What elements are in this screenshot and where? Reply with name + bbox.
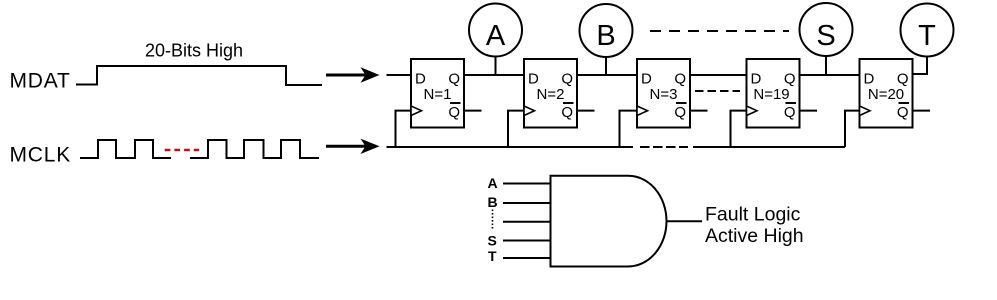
flip-flop U20 N=20 <box>860 59 913 128</box>
svg-text:Q: Q <box>784 71 796 88</box>
MCLK rail solid left segment <box>387 146 634 148</box>
wire Q19 to D20 <box>800 74 860 76</box>
svg-text:S: S <box>488 232 497 248</box>
AND gate input wire T <box>503 257 551 259</box>
AND gate input wire middle <box>503 221 551 223</box>
svg-text:Q: Q <box>897 71 909 88</box>
svg-text:B: B <box>596 20 615 52</box>
Q-bar stub FF3 <box>690 110 708 112</box>
dashed line node B to node S <box>650 30 789 32</box>
node A <box>469 4 522 76</box>
svg-text:D: D <box>528 71 539 88</box>
MDAT waveform <box>76 66 322 85</box>
svg-text:D: D <box>641 71 652 88</box>
svg-text:S: S <box>816 20 835 52</box>
flip-flop U1 N=1 <box>411 59 464 128</box>
svg-text:Fault Logic: Fault Logic <box>705 204 801 226</box>
clock wire to FF1 <box>396 111 412 147</box>
AND gate input wire S <box>503 240 551 242</box>
svg-text:B: B <box>488 194 498 210</box>
flip-flop U2 N=2 <box>524 59 577 128</box>
svg-text:Q: Q <box>674 104 686 121</box>
dashed wire omitted stages <box>695 90 740 92</box>
AND gate U21 <box>551 176 667 267</box>
wire Q3 to D19 <box>690 74 747 76</box>
svg-text:A: A <box>486 20 506 52</box>
svg-text:Q: Q <box>897 104 909 121</box>
arrow MDAT into shift chain <box>326 67 380 82</box>
svg-text:T: T <box>488 248 497 264</box>
MCLK rail solid right segment <box>693 146 845 148</box>
svg-text:MDAT: MDAT <box>10 70 71 93</box>
flip-flop U3 N=3 <box>637 59 690 128</box>
wire arrow to FF1 D input <box>387 74 412 76</box>
Q-bar stub FF19 <box>800 110 818 112</box>
dotted line label B to S <box>492 210 494 229</box>
label Fault Logic Active High <box>705 204 804 247</box>
svg-text:D: D <box>751 71 762 88</box>
svg-text:N=3: N=3 <box>650 86 678 103</box>
Q-bar stub FF1 <box>464 110 482 112</box>
svg-text:N=19: N=19 <box>753 86 789 103</box>
arrow MCLK into clock rail <box>326 139 380 154</box>
node S <box>800 3 853 75</box>
wire Q20 up to node T <box>913 57 928 75</box>
MCLK waveform right burst <box>190 140 319 158</box>
MCLK rail dashed segment <box>640 146 688 148</box>
svg-text:Q: Q <box>448 71 460 88</box>
svg-text:Active High: Active High <box>705 225 804 247</box>
svg-text:20-Bits High: 20-Bits High <box>145 41 243 61</box>
clock wire to FF2 <box>508 111 524 147</box>
svg-text:Q: Q <box>561 104 573 121</box>
clock wire to FF20 <box>845 111 860 147</box>
svg-text:T: T <box>918 20 936 52</box>
flip-flop U19 N=19 <box>747 59 800 128</box>
clock wire to FF3 <box>620 111 638 147</box>
svg-text:A: A <box>488 175 498 191</box>
wire Q2 to D3 <box>577 74 637 76</box>
wire Q1 to D2 <box>464 74 524 76</box>
Q-bar stub FF20 <box>913 110 931 112</box>
svg-text:Q: Q <box>448 104 460 121</box>
AND gate input wire A <box>503 183 551 185</box>
svg-text:Q: Q <box>674 71 686 88</box>
MCLK gap red dashes <box>165 149 200 152</box>
svg-text:Q: Q <box>784 104 796 121</box>
clock wire to FF19 <box>731 111 747 147</box>
svg-text:D: D <box>864 71 875 88</box>
Q-bar stub FF2 <box>577 110 595 112</box>
svg-text:Q: Q <box>561 71 573 88</box>
node B <box>580 4 633 75</box>
node T <box>901 4 954 57</box>
AND gate input wire B <box>503 202 551 204</box>
svg-text:N=20: N=20 <box>868 86 904 103</box>
svg-text:N=2: N=2 <box>537 86 565 103</box>
svg-text:MCLK: MCLK <box>10 144 72 167</box>
svg-text:N=1: N=1 <box>424 86 452 103</box>
MCLK waveform left burst <box>80 140 171 158</box>
svg-text:D: D <box>415 71 426 88</box>
AND gate output wire <box>667 220 702 222</box>
